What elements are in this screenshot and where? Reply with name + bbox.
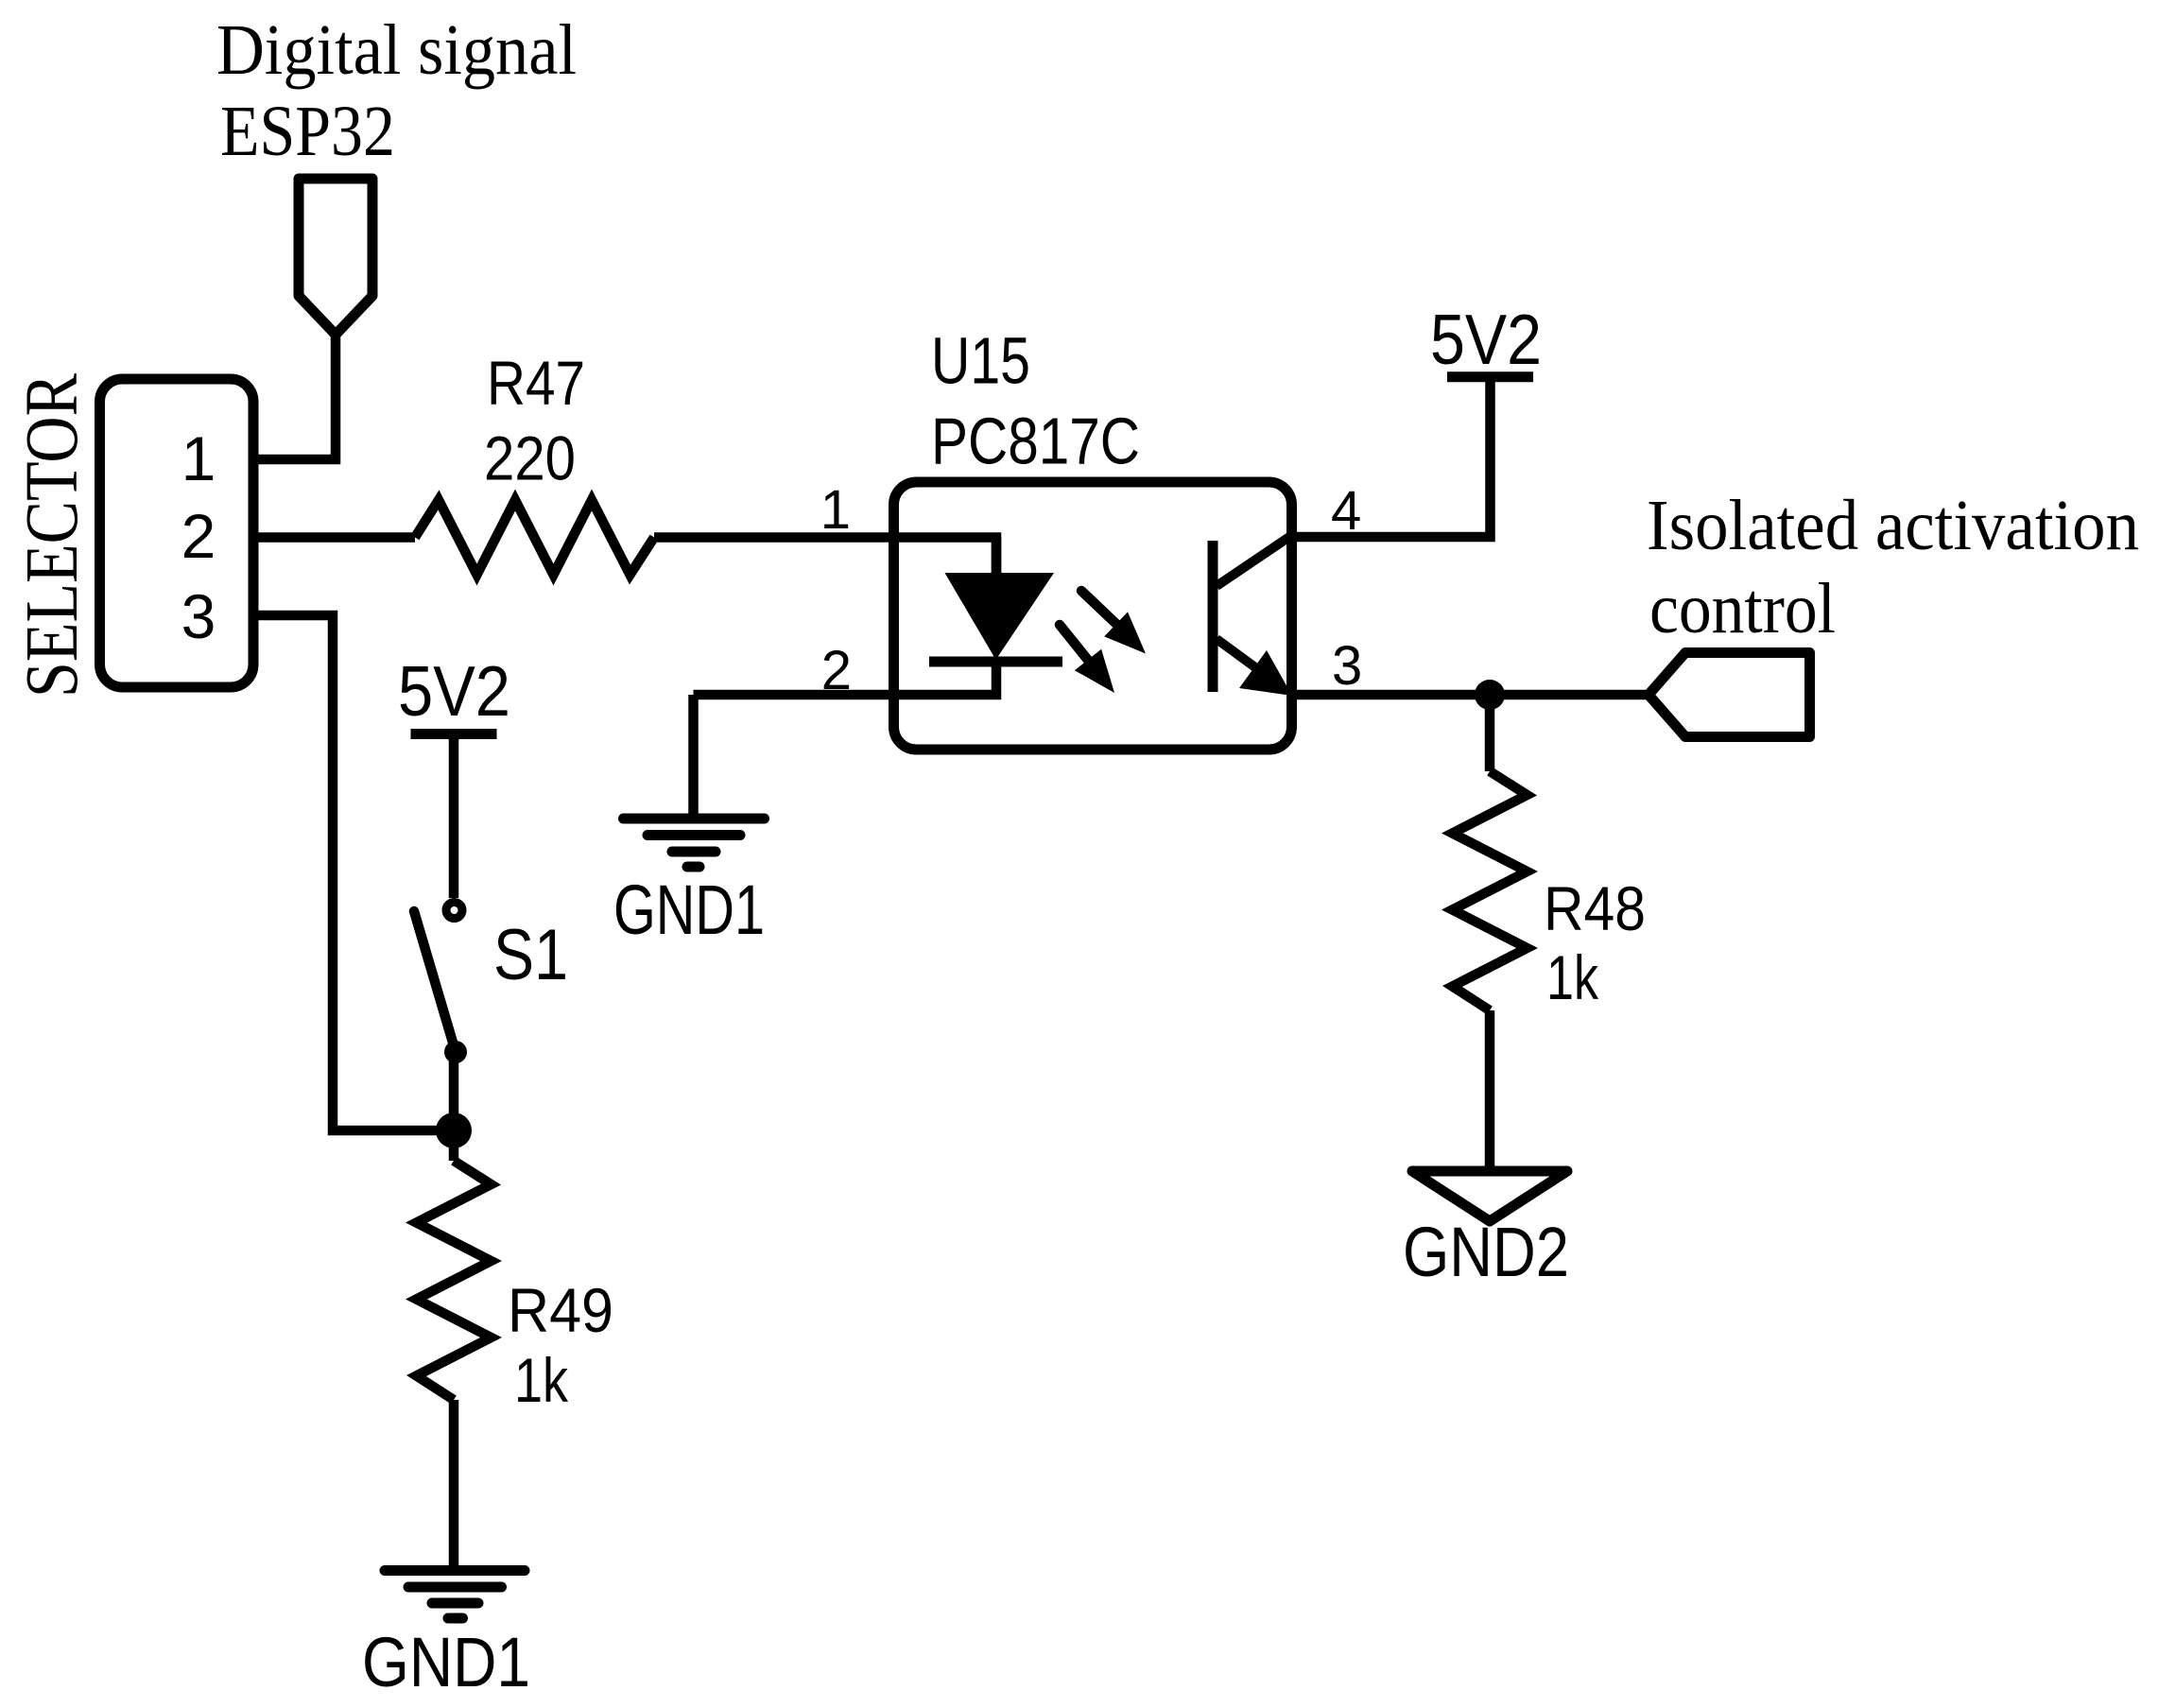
resistor R49 <box>417 1161 492 1400</box>
wire: junction to R48 <box>1485 695 1495 771</box>
svg-text:R48: R48 <box>1544 873 1646 943</box>
svg-text:3: 3 <box>181 581 216 651</box>
svg-text:PC817C: PC817C <box>931 405 1140 478</box>
wire: U15 pin 4 to 5V2 <box>1292 377 1491 537</box>
wire: SELECTOR pin 3 down to switch junction <box>253 615 454 1130</box>
LED (inside U15) anode lead <box>992 538 1002 575</box>
LED triangle <box>945 573 1055 660</box>
wire: U15 pin 2 to LED cathode <box>694 662 997 695</box>
phototransistor base bar <box>1208 541 1218 692</box>
optocoupler U15 PC817C box <box>894 482 1292 750</box>
wire: junction to R49 <box>449 1130 459 1161</box>
wire: R48 to GND2 <box>1485 1010 1495 1171</box>
svg-text:2: 2 <box>821 640 852 701</box>
phototransistor collector <box>1217 537 1289 586</box>
connector SELECTOR (3-pin) <box>100 379 254 687</box>
svg-text:1k: 1k <box>514 1345 569 1415</box>
wire: ESP32 connector to SELECTOR pin 1 <box>253 333 336 459</box>
svg-text:S1: S1 <box>493 915 568 995</box>
svg-text:control: control <box>1649 569 1836 648</box>
junction node (S1 / SELECTOR pin 3 / R49) <box>436 1113 472 1148</box>
svg-text:1k: 1k <box>1546 942 1599 1012</box>
light arrow B <box>1081 591 1118 626</box>
wire: SELECTOR pin 2 to R47 <box>253 532 415 543</box>
LED cathode bar <box>929 657 1062 667</box>
svg-text:1: 1 <box>820 479 851 541</box>
svg-text:220: 220 <box>484 423 576 493</box>
ground GND1 (bottom) <box>385 1571 525 1619</box>
svg-text:GND2: GND2 <box>1403 1213 1569 1291</box>
wire: R49 to GND1 <box>449 1400 459 1571</box>
svg-text:Digital signal: Digital signal <box>216 10 577 90</box>
svg-text:Isolated activation: Isolated activation <box>1647 486 2139 565</box>
wire: 5V2 to switch S1 <box>449 734 459 899</box>
phototransistor emitter <box>1217 639 1259 670</box>
svg-text:2: 2 <box>181 501 216 571</box>
ground GND1 (middle) <box>624 819 765 867</box>
connector: isolated activation control output pin <box>1649 653 1810 737</box>
svg-text:5V2: 5V2 <box>1430 300 1542 379</box>
svg-text:GND1: GND1 <box>362 1623 530 1701</box>
svg-text:ESP32: ESP32 <box>220 92 395 171</box>
svg-text:GND1: GND1 <box>613 871 765 949</box>
wire: R47 to U15 pin 1 (LED anode) <box>654 538 996 575</box>
node label: Digital signal ESP32 <box>216 10 577 171</box>
svg-text:5V2: 5V2 <box>398 651 510 731</box>
connector: ESP32 digital signal input pin <box>299 179 372 335</box>
resistor R47 <box>415 500 654 575</box>
svg-text:SELECTOR: SELECTOR <box>11 373 94 698</box>
svg-text:R47: R47 <box>487 348 585 418</box>
resistor R48 <box>1453 771 1528 1010</box>
svg-text:3: 3 <box>1332 635 1362 697</box>
svg-text:U15: U15 <box>931 324 1030 398</box>
junction node (pin 3 / R48 / output) <box>1475 680 1505 710</box>
svg-text:R49: R49 <box>508 1275 613 1345</box>
wire: U15 pin 3 to output connector <box>1292 690 1649 700</box>
emitter arrowhead <box>1239 650 1292 696</box>
ground GND2 <box>1412 1171 1567 1221</box>
node label: Isolated activation control <box>1647 486 2139 648</box>
svg-text:1: 1 <box>181 423 216 493</box>
switch S1 <box>446 903 462 919</box>
wire: U15 pin 2 to GND1 (middle) <box>688 695 699 819</box>
light arrow A <box>1060 625 1091 664</box>
svg-text:4: 4 <box>1331 480 1361 542</box>
wire: switch S1 to junction <box>449 1052 459 1130</box>
